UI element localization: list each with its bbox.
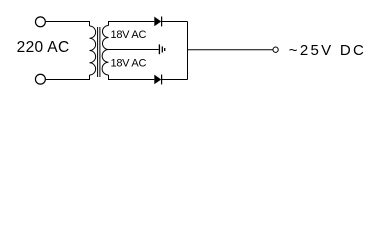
terminal J3 (DC output)	[273, 47, 278, 52]
terminal J2 (AC input bottom)	[35, 74, 45, 84]
diode D1	[154, 17, 161, 27]
wire: D1 to output bus	[162, 21, 188, 23]
transformer T1 core	[98, 27, 100, 77]
terminal J1 (AC input top)	[35, 17, 45, 27]
svg-text:18V AC: 18V AC	[111, 29, 147, 41]
transformer T1 secondary upper winding	[103, 26, 109, 50]
wire: bottom input lead to primary	[46, 75, 90, 80]
wire: secondary bottom to D2	[109, 75, 155, 80]
svg-text:~25V DC: ~25V DC	[289, 42, 366, 59]
ground	[159, 44, 164, 54]
svg-text:220 AC: 220 AC	[17, 39, 70, 56]
wire: output bus vertical	[187, 22, 189, 80]
svg-text:18V AC: 18V AC	[111, 58, 147, 70]
wire: secondary top to D1	[109, 22, 155, 26]
wire: DC output	[188, 49, 273, 51]
wire: D2 to output bus	[162, 79, 188, 81]
transformer T1 primary winding	[90, 26, 96, 75]
wire: center tap to ground	[109, 49, 159, 51]
wire: top input lead to primary	[46, 22, 90, 27]
transformer T1 secondary lower winding	[102, 50, 108, 76]
diode D2	[154, 75, 161, 85]
